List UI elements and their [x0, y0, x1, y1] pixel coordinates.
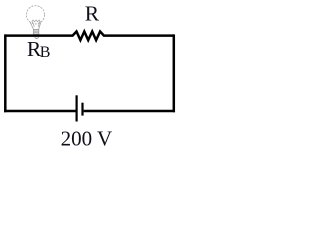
svg-text:200 V: 200 V	[61, 127, 113, 151]
lamp RB filament	[32, 20, 41, 22]
wire top-left + resistor R zigzag + wire top-right	[5, 32, 174, 41]
wire bottom-right from battery	[84, 110, 175, 113]
wire left vertical	[4, 34, 7, 112]
battery short plate (right)	[81, 103, 83, 116]
lamp RB glass globe	[26, 6, 44, 24]
svg-text:R: R	[85, 2, 100, 26]
battery long plate (left)	[75, 95, 77, 121]
svg-text:B: B	[40, 44, 51, 61]
lamp RB filament leads	[32, 22, 39, 27]
lamp RB glass neck	[30, 22, 41, 29]
wire bottom-left to battery	[4, 110, 75, 113]
lamp RB bulb base	[33, 29, 39, 38]
wire right vertical	[173, 34, 176, 112]
